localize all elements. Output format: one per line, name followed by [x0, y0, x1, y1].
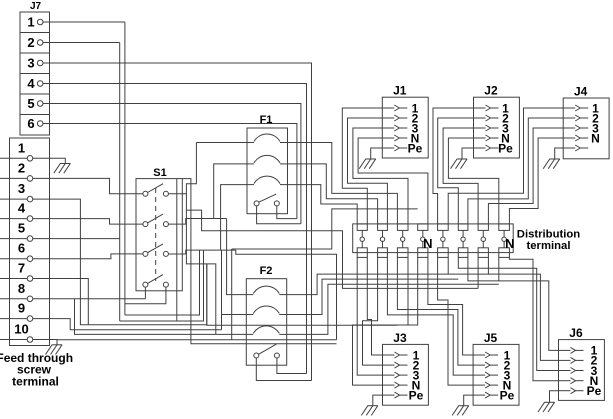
svg-text:N: N: [505, 236, 514, 251]
J4 pin 1: [563, 101, 599, 115]
label J1: [393, 84, 407, 98]
feed-through pin 1 contact: [27, 156, 33, 162]
wire t2R down to J5 pin3: [387, 257, 473, 375]
distribution terminal 5: [438, 224, 449, 258]
wire t4R down to J5 pin1: [428, 257, 473, 355]
svg-text:S1: S1: [153, 167, 166, 179]
connector J3 body: [383, 344, 429, 405]
wire F2 out1: [287, 274, 449, 295]
svg-text:F1: F1: [260, 114, 273, 126]
switch S1 pole 3: [143, 244, 169, 257]
wire J7 pin6 bus: [43, 124, 297, 219]
label N terminal 8: [505, 236, 514, 251]
wire t3L down to J5 pin2: [397, 257, 473, 365]
distribution terminal 7: [478, 224, 488, 258]
J1 pin 2: [382, 111, 418, 125]
wire node A chain: [186, 210, 478, 288]
svg-text:J2: J2: [484, 84, 498, 98]
feed-through pin 8 contact: [27, 296, 33, 302]
wire F1 out3: [288, 185, 358, 224]
F2 aux switch: [254, 344, 280, 358]
distribution terminal 3: [397, 224, 408, 258]
ground G1: [54, 164, 71, 174]
wire N1 link: [232, 209, 418, 249]
svg-text:Pe: Pe: [587, 384, 602, 398]
feed-through pin 4 contact: [27, 216, 33, 222]
connector J1 body: [382, 97, 428, 158]
wire J7 pin3 bus L3a: [43, 63, 312, 381]
svg-text:terminal: terminal: [12, 374, 59, 388]
breaker F2 body: [246, 279, 286, 366]
J7 pin 3 contact: [27, 56, 43, 71]
wire t7R down: [487, 257, 489, 274]
connector J6 body: [559, 340, 605, 401]
svg-text:N: N: [591, 131, 600, 145]
wire J2 pin3: [443, 128, 478, 224]
ground G5: [361, 406, 378, 416]
label F2: [260, 265, 273, 277]
svg-text:6: 6: [27, 116, 34, 131]
J5 pin Pe: [473, 388, 515, 402]
F1 aux switch: [254, 194, 279, 206]
F2 breaker pole 3: [246, 326, 286, 335]
wire J2 Pe: [462, 148, 474, 159]
svg-text:7: 7: [18, 261, 25, 276]
svg-text:1: 1: [18, 140, 25, 155]
feed-through pin 5 label: [18, 221, 25, 236]
wire F1 aux right: [277, 206, 297, 219]
connector J2 body: [474, 97, 520, 158]
wire node B drop: [119, 43, 121, 322]
wire node A ring: [125, 250, 200, 315]
ground G7: [538, 402, 555, 412]
wire FT pin2 to S1 pole1: [0, 178, 143, 193]
feed-through pin 9 label: [18, 301, 25, 316]
wire S1 pole3 out: [168, 250, 235, 254]
svg-text:4: 4: [18, 201, 26, 216]
J6 pin Pe: [559, 384, 602, 398]
wire t5R to J6 pin2: [448, 257, 558, 360]
distribution terminal 2: [378, 224, 388, 258]
wire S1 pole1 out branch down: [186, 194, 215, 335]
switch S1 pole 4: [143, 275, 169, 288]
wire J4 pin3: [488, 128, 563, 224]
switch S1 body: [136, 179, 182, 291]
svg-text:Pe: Pe: [408, 141, 423, 155]
wire J1 pin1: [342, 108, 382, 224]
wire S1 pole2 out: [168, 219, 226, 225]
J5 pin 2: [473, 358, 511, 372]
wire F2 aux right: [277, 358, 307, 374]
wire FT pin9 to F2 in2: [0, 319, 222, 330]
wire t5L down to J5 N: [438, 257, 474, 385]
F2 breaker pole 2: [246, 306, 286, 315]
J3 pin 3: [383, 368, 420, 382]
wire J4 pinN: [509, 138, 563, 224]
distribution terminal 1: [357, 224, 367, 258]
wire FT pin10: [0, 340, 57, 345]
ground G8: [46, 345, 63, 355]
svg-text:N: N: [423, 236, 432, 251]
label S1: [153, 167, 166, 179]
caption feed through screw terminal: [0, 351, 73, 388]
J2 pin N: [474, 131, 510, 145]
ground G6: [452, 406, 469, 416]
wire J3 Pe: [373, 395, 383, 406]
J5 pin 1: [473, 348, 511, 362]
svg-text:5: 5: [27, 96, 34, 111]
J7 pin 1 contact: [27, 15, 43, 30]
wire J7 pin4 bus L2a: [43, 84, 307, 374]
svg-text:1: 1: [27, 15, 34, 30]
J6 pin N: [559, 374, 599, 388]
label J4: [574, 85, 588, 99]
svg-text:J6: J6: [569, 326, 583, 340]
feed-through pin 2 contact: [27, 176, 33, 182]
feed-through pin 3 contact: [27, 196, 33, 202]
wire t4L down to J3 N: [353, 257, 418, 385]
svg-text:J4: J4: [574, 85, 588, 99]
wire t6R to J6 pin1: [468, 257, 559, 350]
caption distribution terminal: [517, 228, 580, 252]
svg-text:Pe: Pe: [500, 388, 515, 402]
J1 pin N: [382, 131, 419, 145]
svg-text:10: 10: [14, 322, 28, 337]
feed-through pin 6 contact: [27, 256, 33, 262]
svg-text:2: 2: [18, 160, 25, 175]
wire S1 top link run: [182, 179, 336, 344]
distribution terminal body: [353, 224, 514, 253]
wire t8R to J6 N: [509, 257, 558, 380]
label F1: [260, 114, 273, 126]
J4 pin 3: [563, 121, 599, 135]
wire FT pin7: [0, 279, 88, 325]
S1 mechanical link: [155, 188, 157, 281]
wire J6 Pe: [550, 391, 559, 403]
F1 breaker pole 2: [247, 155, 288, 164]
wire FT pin6 to S1 pole3: [0, 254, 143, 259]
distribution terminal 6: [458, 224, 468, 258]
wire F2 in1 feed: [227, 219, 247, 295]
J4 pin 5: [563, 145, 588, 151]
feed-through pin 4 label: [18, 201, 26, 216]
wire node E link: [207, 264, 398, 325]
feed-through pin 10 label: [14, 322, 28, 337]
svg-text:3: 3: [18, 181, 25, 196]
wire F2 out3: [287, 284, 499, 334]
wire J4 Pe: [555, 148, 564, 159]
connector J7 body: [20, 12, 50, 135]
wire t1L down to J3 pin3: [357, 257, 382, 375]
connector J4 body: [563, 98, 609, 159]
J5 pin N: [473, 378, 511, 392]
J7 pin 5 contact: [27, 96, 43, 111]
wire J1 pin2: [348, 118, 388, 224]
ground G3: [451, 159, 468, 169]
svg-text:9: 9: [18, 301, 25, 316]
feed-through pin 9 contact: [27, 316, 33, 322]
wire node A drop: [124, 22, 126, 315]
wire J4 pin2: [468, 118, 563, 224]
wire FT pin3 to node C: [0, 199, 207, 325]
feed-through pin 10 contact: [27, 337, 33, 343]
svg-text:5: 5: [18, 221, 25, 236]
wire pole2 chain: [236, 250, 337, 340]
svg-text:4: 4: [27, 76, 35, 91]
svg-text:2: 2: [27, 35, 34, 50]
svg-text:Pe: Pe: [498, 141, 513, 155]
J5 pin 3: [473, 368, 511, 382]
F1 breaker pole 3: [247, 176, 288, 185]
wire J7 pin5 bus: [43, 104, 301, 224]
label N terminal 4: [423, 236, 432, 251]
J7 pin 2 contact: [27, 35, 43, 50]
wire FT pin8 to S1 pole4: [0, 298, 145, 300]
distribution terminal 4: [418, 224, 428, 258]
F2 breaker pole 1: [246, 286, 286, 295]
wire F2 in2 stub: [222, 314, 247, 316]
feed-through pin 2 label: [18, 160, 25, 175]
svg-text:3: 3: [27, 56, 34, 71]
feed-through pin 1 label: [18, 140, 25, 155]
breaker F1 body: [247, 128, 288, 214]
wire F1 aux left: [257, 206, 301, 224]
wire F2 in2 feed: [221, 250, 223, 330]
switch S1 pole 1: [143, 184, 169, 197]
J7 pin 6 contact: [27, 116, 43, 131]
wire J5 Pe: [464, 395, 473, 406]
J6 pin 3: [559, 364, 598, 378]
J1 pin 1: [382, 101, 418, 115]
wire F1 in1 stub: [196, 142, 247, 144]
wire S1 pole1 out: [168, 143, 196, 194]
switch S1 pole 2: [143, 214, 169, 227]
feed-through pin 7 contact: [27, 276, 33, 282]
ground G2: [359, 159, 376, 169]
wire J7 pin2 to node B: [43, 42, 120, 44]
svg-text:8: 8: [18, 281, 25, 296]
wire FT pin4 to S1 pole2: [0, 219, 143, 225]
J1 pin Pe: [382, 141, 422, 155]
label J5: [484, 331, 498, 345]
J6 pin 2: [559, 354, 598, 368]
wire F1 out1: [288, 143, 398, 224]
wire t3R down to J3 N: [407, 257, 409, 325]
svg-text:F2: F2: [260, 265, 273, 277]
wire F1 out2: [288, 164, 378, 224]
wire node C riser: [206, 264, 208, 325]
feed-through pin 7 label: [18, 261, 25, 276]
J3 pin Pe: [383, 388, 424, 402]
feed-through pin 5 contact: [27, 236, 33, 242]
J3 pin 2: [383, 358, 420, 372]
wire node B ring: [120, 250, 204, 321]
feed-through pin 3 label: [18, 181, 25, 196]
J2 pin 1: [474, 101, 510, 115]
svg-text:terminal: terminal: [527, 240, 571, 252]
wire FT pin1: [0, 158, 65, 163]
wire S1 inner link: [176, 179, 178, 321]
J6 pin 1: [559, 344, 598, 358]
distribution terminal 8: [499, 224, 510, 258]
wire J2 pinN: [448, 138, 498, 224]
wire t7L down: [477, 257, 479, 288]
wire J4 pin1: [448, 108, 563, 224]
wire t8L down: [498, 257, 500, 281]
wire t2L down to J3 pin2: [363, 257, 383, 365]
svg-text:J3: J3: [393, 331, 407, 345]
wire F2 aux left: [256, 358, 311, 381]
wire J2 pin2: [438, 118, 474, 224]
label J3: [393, 331, 407, 345]
J3 pin 1: [383, 348, 420, 362]
wire J2 pin1: [433, 108, 474, 224]
wire J1 Pe: [371, 148, 383, 159]
svg-text:Pe: Pe: [409, 388, 424, 402]
wire FT pin5: [0, 238, 120, 240]
feed-through pin 6 label: [18, 241, 25, 256]
J4 pin N: [563, 131, 600, 145]
svg-text:J1: J1: [393, 84, 407, 98]
wire N1 riser: [231, 249, 233, 340]
feed-through terminal body: [10, 138, 50, 346]
J2 pin 3: [474, 121, 510, 135]
J4 pin 2: [563, 111, 599, 125]
F1 breaker pole 1: [247, 134, 288, 143]
wire t1R down to J3 pin1: [367, 257, 382, 355]
wire S1 pole4 left to FT pin8: [144, 287, 146, 299]
svg-text:J7: J7: [30, 1, 42, 12]
connector J5 body: [473, 344, 519, 405]
wire J1 pin3: [353, 128, 408, 224]
svg-text:6: 6: [18, 241, 25, 256]
J1 pin 3: [382, 121, 418, 135]
wire FT pin10 to N1: [57, 339, 337, 341]
feed-through pin 8 label: [18, 281, 25, 296]
J2 pin 2: [474, 111, 510, 125]
wire J1 pinN: [358, 138, 428, 224]
J3 pin N: [383, 378, 421, 392]
ground G4: [543, 159, 560, 169]
J7 pin 4 contact: [27, 76, 43, 91]
J2 pin Pe: [474, 141, 514, 155]
label J7: [30, 1, 42, 12]
label J6: [569, 326, 583, 340]
wire F1 in2 feed: [214, 164, 247, 219]
wire F2 out2: [287, 279, 459, 314]
wire J7 pin1 to node A: [43, 21, 125, 23]
wire S1 pole4 right to node A: [125, 287, 166, 304]
label J2: [484, 84, 498, 98]
wire FT pin8 branch to F2 in3: [75, 299, 247, 335]
svg-text:Distribution: Distribution: [517, 228, 580, 240]
wire F1 in3 feed: [221, 185, 247, 251]
svg-text:J5: J5: [484, 331, 498, 345]
wire t6L to J6 pin3: [458, 257, 558, 370]
